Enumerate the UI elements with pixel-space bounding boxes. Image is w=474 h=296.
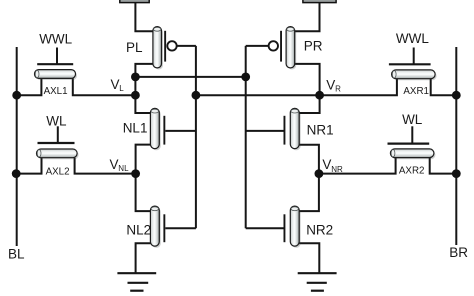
svg-text:V: V	[110, 157, 119, 172]
label NR1	[307, 123, 334, 138]
wire: AXR2 drain stub to BR	[430, 158, 457, 174]
junction: upper rail / right gate-feed	[241, 73, 250, 82]
wire: V_NR to AXR2 source (with stub)	[319, 158, 396, 174]
label WWL (right)	[396, 31, 429, 46]
node V_L (upper rail tap)	[131, 73, 140, 82]
label AXL2	[46, 166, 70, 177]
power rail VDD right	[303, 0, 336, 3]
wire: upper rail V_L net to PR/NR gates column	[135, 76, 245, 78]
svg-text:V: V	[326, 77, 335, 92]
label AXL1	[44, 86, 68, 97]
wire: BL to AXL2 source (with stub)	[16, 158, 41, 174]
wire: V_R net horizontal rail to AXR1	[196, 79, 397, 96]
svg-text:PR: PR	[304, 39, 323, 54]
svg-text:NR1: NR1	[307, 123, 334, 138]
wire: PL gate bubble to left gate-feed vertical	[177, 45, 196, 47]
svg-text:NL: NL	[118, 164, 129, 173]
svg-text:L: L	[119, 84, 124, 93]
label BR	[449, 245, 468, 260]
label WL (right)	[402, 112, 423, 127]
svg-text:WL: WL	[46, 113, 67, 128]
transistor NR1 (NMOS pull-down right upper)	[284, 108, 301, 150]
wire: AXR1 drain stub to BR	[431, 79, 457, 96]
junction: BR / AXR1	[452, 91, 461, 100]
svg-text:NL2: NL2	[126, 223, 151, 238]
label WWL (left)	[39, 32, 72, 47]
node V_NL	[131, 169, 140, 178]
svg-text:V: V	[111, 77, 120, 92]
wire: PR drain down to V_R	[295, 64, 320, 95]
svg-text:NR: NR	[331, 165, 343, 174]
svg-text:BL: BL	[8, 247, 25, 262]
wire: V_NR down to NR2 drain	[299, 174, 319, 212]
ground (left, below NL2)	[117, 273, 156, 291]
svg-text:WL: WL	[402, 112, 423, 127]
wire: NL2 source down to ground	[136, 243, 151, 273]
transistor NL2 (NMOS pull-down left lower)	[150, 206, 165, 248]
wire: NR2 gate wire	[246, 227, 284, 229]
ground (right, below NR2)	[298, 273, 337, 291]
junction: V_R rail / left gate-feed	[192, 91, 201, 100]
wire: BL to AXL1 source (with stub up to pill)	[17, 78, 42, 95]
junction: BL / AXL2	[12, 169, 21, 178]
power rail VDD left	[120, 0, 149, 3]
svg-text:R: R	[335, 84, 341, 93]
label NL1	[123, 121, 148, 136]
transistor AXR2 (access NMOS, word line WL, right)	[388, 126, 436, 159]
junction: BR / AXR2	[452, 169, 461, 178]
transistor NL1 (NMOS pull-down left upper)	[150, 108, 165, 150]
wire: VDD left stem down and jog to PL source	[135, 3, 153, 32]
svg-text:WWL: WWL	[39, 32, 72, 47]
wire: NR1 source down to V_NR	[299, 145, 319, 174]
wire: left gate-feed vertical (V_R net to PL,NL1,NL2 gates)	[195, 46, 197, 228]
label WL (left)	[46, 113, 67, 128]
junction: BL / AXL1	[12, 91, 21, 100]
svg-text:AXL1: AXL1	[44, 86, 68, 97]
node label V_L	[111, 77, 125, 93]
label NR2	[306, 223, 333, 238]
transistor PL (PMOS pull-up left)	[153, 27, 177, 70]
wire: right gate-feed vertical (V_L net to PR,NR1,NR2 gates)	[245, 46, 247, 228]
node label V_R	[326, 77, 341, 93]
label PR	[304, 39, 323, 54]
wire: NL1 source down to V_NL	[136, 145, 151, 174]
label BL	[8, 247, 25, 262]
node V_R	[315, 91, 324, 100]
node label V_NR	[322, 157, 343, 174]
wire: V_R column down to NR1 drain	[299, 95, 319, 113]
wire: BR bit-line vertical	[455, 47, 457, 245]
svg-text:WWL: WWL	[396, 31, 429, 46]
svg-text:BR: BR	[449, 245, 468, 260]
wire: NL1 gate wire	[165, 130, 196, 132]
wire: AXL2 drain stub to V_NL	[75, 158, 136, 174]
label AXR2	[399, 166, 425, 177]
wire: PR gate bubble wire	[246, 45, 269, 47]
svg-text:AXR1: AXR1	[403, 86, 429, 97]
wire: AXL1 drain stub down to V_L wire	[73, 78, 136, 95]
label AXR1	[403, 86, 429, 97]
wire: NR2 source down to ground	[299, 243, 319, 273]
svg-text:AXR2: AXR2	[399, 166, 425, 177]
node label V_NL	[110, 157, 130, 173]
svg-text:V: V	[322, 157, 331, 172]
transistor PR (PMOS pull-up right)	[269, 27, 297, 70]
svg-text:NR2: NR2	[306, 223, 333, 238]
transistor AXL2 (access NMOS, word line WL, left)	[37, 126, 79, 159]
wire: NL2 gate wire	[165, 227, 196, 229]
wire: VDD right stem down and jog to PR source	[295, 3, 320, 32]
transistor NR2 (NMOS pull-down right lower)	[284, 206, 301, 248]
wire: BL bit-line vertical	[16, 47, 18, 246]
svg-text:PL: PL	[126, 40, 143, 55]
wire: PL drain jog and V_L column down to NL1 drain	[135, 64, 153, 113]
node V_NR	[315, 169, 324, 178]
svg-text:NL1: NL1	[123, 121, 148, 136]
transistor AXR1 (access NMOS, word line WWL, right)	[389, 48, 437, 81]
junction: V_L / access wire	[131, 91, 140, 100]
svg-text:AXL2: AXL2	[46, 166, 70, 177]
transistor AXL1 (access NMOS, word line WWL, left)	[35, 48, 78, 81]
wire: NR1 gate wire	[246, 130, 284, 132]
wire: V_NL down to NL2 drain	[136, 174, 151, 212]
label PL	[126, 40, 143, 55]
label NL2	[126, 223, 151, 238]
